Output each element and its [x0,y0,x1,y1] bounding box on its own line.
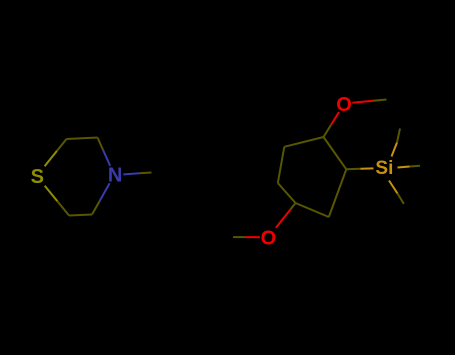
bond C5-C6 (benzene ring V5-V6) [278,147,285,183]
svg-text:O: O [261,227,277,249]
atom N (thiomorpholine nitrogen) [108,164,122,186]
bond S-C6 (thiomorpholine ring) [45,186,69,216]
atom O1 (top methoxy oxygen) [336,94,352,116]
bond N-CH3 (N-methyl) [123,173,151,175]
atom S (thiomorpholine sulfur) [31,166,44,188]
bond C3-C4 (benzene ring V3-V4) [296,203,329,217]
bond C1-C2 (benzene ring V1-V2) [324,137,347,169]
svg-text:N: N [108,164,122,186]
svg-text:Si: Si [375,158,393,179]
bond C4-C5 (benzene ring V4-V5) [278,183,296,203]
svg-text:O: O [336,94,352,116]
bond Si-CH3 (right methyl) [398,166,421,168]
atom O2 (bottom methoxy oxygen) [261,227,277,249]
bond S-C2 (thiomorpholine ring) [45,139,67,166]
svg-text:S: S [31,166,44,188]
bond O1-CH3 (top methoxy methyl) [352,100,386,103]
bond O1-C1 (top methoxy to ring) [324,112,340,137]
bond O2-CH3 (bottom methoxy methyl) [233,236,260,238]
bond C6-C1 (benzene ring V6-V1) [284,137,323,147]
bond Si-CH3 (lower methyl) [389,181,404,204]
bond N-C5 (thiomorpholine ring) [92,183,110,214]
bond C2-C3 (benzene ring V2-V3) [329,169,347,217]
atom Si (trimethylsilyl silicon) [375,158,393,179]
bond C5-C6 (thiomorpholine ring) [69,215,92,216]
bond C2-Si (ring carbon to silicon) [346,167,373,170]
bond Si-CH3 (upper methyl) [392,129,401,157]
bond O2-C4 (bottom methoxy to ring) [276,203,296,228]
bond C3-N (thiomorpholine ring) [98,138,111,166]
bond C2-C3 (thiomorpholine ring) [67,138,98,140]
